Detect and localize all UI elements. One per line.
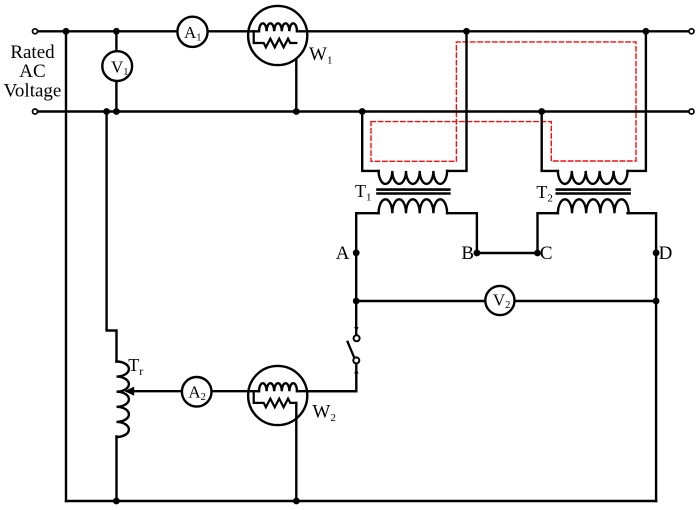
junction: supply rail / W1 voltage tap <box>293 108 300 115</box>
wire T2 secondary right lead down through node D to return rail <box>628 213 657 501</box>
wire T2 primary right lead <box>628 31 646 171</box>
wire switch bottom to W2 <box>307 364 356 391</box>
junction: supply rail / T1 primary left <box>359 108 366 115</box>
Tr wiper arrowhead <box>124 387 134 396</box>
junction: top rail / T2 primary right <box>643 28 650 35</box>
svg-text:T1: T1 <box>355 181 372 203</box>
wire T1 primary left lead <box>362 112 378 171</box>
svg-text:W1: W1 <box>309 44 332 66</box>
terminal top right <box>689 29 694 34</box>
junction: top rail / left return branch <box>63 28 70 35</box>
wire T2 secondary left lead down to node C <box>538 213 558 253</box>
transformer T2 primary winding <box>558 171 628 184</box>
wire bottom return rail <box>66 500 656 502</box>
wire W1 voltage tap to supply rail <box>295 43 297 112</box>
wire V2 horizontal <box>356 300 656 302</box>
junction: supply rail / Tr feed <box>103 108 110 115</box>
wire Tr bottom to return rail <box>115 437 117 502</box>
node D <box>653 249 660 256</box>
junction: V2 wire / switch branch <box>353 298 360 305</box>
svg-text:D: D <box>659 243 673 264</box>
wire supply to Tr with jog <box>107 112 117 362</box>
wire T1 secondary right lead down to node B <box>447 213 477 253</box>
node A <box>353 249 360 256</box>
svg-text:A: A <box>336 243 350 264</box>
wire T1 primary right lead <box>447 31 466 171</box>
svg-text:T2: T2 <box>536 182 553 204</box>
autotransformer Tr winding <box>117 362 129 438</box>
voltmeter V1 <box>102 51 132 81</box>
transformer T1 core <box>378 190 450 194</box>
wire left vertical from top rail to bottom return <box>65 31 67 501</box>
red dashed secondary-loop path <box>371 42 636 161</box>
svg-text:AC: AC <box>19 61 45 82</box>
wattmeter W2 <box>248 366 308 501</box>
junction: V2 wire / D branch <box>653 298 660 305</box>
wattmeter W1 <box>248 6 308 65</box>
voltmeter V2 <box>485 286 514 315</box>
svg-text:Voltage: Voltage <box>4 81 62 102</box>
junction: top rail / T1 primary right <box>463 28 470 35</box>
junction: supply rail / T2 primary left <box>538 108 545 115</box>
junction: return rail / W2 voltage tap <box>293 498 300 505</box>
wire V1 branch <box>115 31 117 111</box>
svg-text:W2: W2 <box>312 402 335 424</box>
node C <box>534 250 541 257</box>
terminal bottom right <box>689 109 694 114</box>
wire top rail <box>38 30 688 32</box>
wire T1 secondary left lead down through node A to switch <box>356 213 378 333</box>
svg-text:C: C <box>540 243 553 264</box>
junction: supply rail / V1 branch <box>113 108 120 115</box>
wire bottom supply rail <box>38 110 688 112</box>
transformer T2 core <box>557 190 630 194</box>
node B <box>474 250 481 257</box>
wire Tr arrow to A2 to W2 <box>132 390 356 392</box>
switch S <box>348 327 360 374</box>
transformer T1 secondary winding <box>379 199 448 213</box>
wire T2 primary left lead <box>542 112 558 171</box>
ammeter A2 <box>182 377 212 407</box>
transformer T2 secondary winding <box>558 199 629 213</box>
junction: return rail / Tr bottom <box>113 498 120 505</box>
ammeter A1 <box>177 17 207 47</box>
transformer T1 primary winding <box>379 171 448 184</box>
wire node B to node C <box>477 252 538 254</box>
svg-text:B: B <box>461 243 474 264</box>
svg-text:Tr: Tr <box>128 355 143 378</box>
source terminal bottom left <box>33 109 38 114</box>
junction: top rail / V1 branch <box>113 28 120 35</box>
source terminal top left <box>33 29 38 34</box>
svg-text:Rated: Rated <box>10 42 55 63</box>
